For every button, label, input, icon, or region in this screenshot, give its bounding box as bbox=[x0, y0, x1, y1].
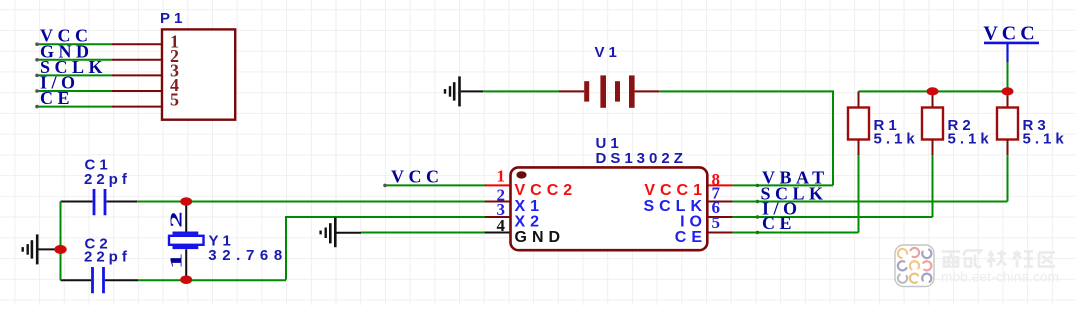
V1 short plate 2 bbox=[615, 81, 620, 101]
wire VCC to P1 pin1 bbox=[35, 42, 112, 46]
wire VCC bus bbox=[859, 90, 1008, 92]
svg-text:SCLK: SCLK bbox=[643, 198, 707, 215]
Y1 top plate bbox=[173, 232, 199, 235]
svg-text:VCC: VCC bbox=[983, 23, 1038, 45]
resistor R3 bbox=[997, 91, 1068, 155]
svg-text:22pf: 22pf bbox=[84, 249, 131, 266]
R2 body bbox=[922, 108, 943, 140]
U1 pin hotspot dots bbox=[756, 184, 759, 187]
wire ground to battery bbox=[483, 90, 559, 92]
ground (left) bbox=[23, 234, 61, 264]
svg-text:5: 5 bbox=[170, 89, 179, 109]
wire CE to P1 pin5 bbox=[35, 105, 112, 109]
U1 pin 2,3 stubs bbox=[485, 202, 510, 218]
connector P1 bbox=[112, 10, 235, 120]
svg-text:V1: V1 bbox=[595, 44, 621, 61]
ground (battery) bbox=[445, 76, 483, 106]
junction (VCC bus / R3) bbox=[1002, 87, 1014, 95]
wire ground to U1 GND bbox=[361, 232, 486, 234]
svg-text:CE: CE bbox=[762, 213, 796, 233]
wire U1 pin8 to VBAT vertical bbox=[733, 184, 833, 186]
svg-text:X1: X1 bbox=[515, 198, 545, 215]
P1 body bbox=[162, 29, 235, 119]
junction (VCC bus / R2) bbox=[927, 87, 939, 95]
wire VCC stem to bus bbox=[1007, 62, 1009, 91]
svg-text:GND: GND bbox=[515, 229, 566, 246]
P1 pin stubs 1-5 bbox=[112, 44, 162, 106]
wire R1 to CE bbox=[858, 155, 860, 232]
wire R3 to SCLK bbox=[1007, 155, 1009, 201]
svg-text:DS1302Z: DS1302Z bbox=[596, 150, 687, 167]
V1 short plate 1 bbox=[584, 81, 589, 101]
Y1 pin leads bbox=[185, 202, 187, 280]
U1 body bbox=[511, 167, 708, 250]
svg-text:X2: X2 bbox=[515, 214, 545, 231]
IC U1 DS1302Z bbox=[485, 135, 759, 250]
C2 lead wires bbox=[61, 279, 139, 281]
R2 bottom lead bbox=[932, 140, 934, 156]
svg-text:IO: IO bbox=[680, 214, 707, 231]
C1 plates bbox=[94, 189, 105, 215]
svg-text:mbb.eet-china.com: mbb.eet-china.com bbox=[941, 270, 1059, 285]
VCC port stem bbox=[1006, 43, 1008, 62]
V1 long plate 2 bbox=[629, 75, 635, 107]
svg-text:5.1k: 5.1k bbox=[874, 131, 919, 148]
svg-text:2: 2 bbox=[167, 211, 186, 228]
svg-text:CE: CE bbox=[675, 229, 707, 246]
svg-text:4: 4 bbox=[497, 216, 506, 235]
junction (ground / C1-C2) bbox=[54, 245, 66, 254]
svg-text:VCC1: VCC1 bbox=[644, 182, 707, 199]
resistor R2 bbox=[922, 91, 993, 155]
watermark logo bbox=[895, 245, 934, 287]
wire U1 pin6 I/O to R2 bbox=[733, 216, 933, 218]
R1 body bbox=[848, 108, 869, 140]
wire C1 to Y1 top / U1 X1 bbox=[137, 201, 486, 203]
junction Y1 top bbox=[180, 197, 192, 206]
V1 long plate 1 bbox=[600, 75, 606, 107]
svg-text:P1: P1 bbox=[160, 10, 186, 27]
svg-text:1: 1 bbox=[167, 253, 186, 270]
Y1 bottom plate bbox=[173, 246, 199, 249]
svg-text:5: 5 bbox=[712, 213, 721, 232]
wire VCC to U1 pin1 bbox=[383, 184, 486, 188]
battery V1 bbox=[559, 44, 659, 108]
ground (middle, U1 GND) bbox=[321, 218, 361, 248]
wire battery to VBAT bbox=[659, 91, 833, 185]
resistor R1 bbox=[848, 91, 919, 155]
VCC port bar bbox=[984, 42, 1039, 45]
R1 top lead bbox=[858, 91, 860, 107]
U1 pin1 marker dot bbox=[516, 171, 526, 178]
wire R2 to I/O bbox=[932, 155, 934, 217]
U1 pin 1 stub bbox=[485, 184, 510, 186]
svg-text:5.1k: 5.1k bbox=[948, 131, 993, 148]
V1 lead wires bbox=[559, 90, 659, 92]
wire U1 pin7 SCLK to R3 bbox=[733, 201, 1008, 203]
wire Y1 bottom to U1 X2 bbox=[286, 217, 486, 280]
wire U1 pin5 CE to R1 bbox=[733, 232, 859, 234]
U1 pin 8 stub bbox=[707, 184, 732, 186]
capacitor C1 bbox=[61, 157, 138, 216]
R3 bottom lead bbox=[1007, 140, 1009, 156]
svg-text:22pf: 22pf bbox=[84, 171, 131, 188]
R3 top lead bbox=[1007, 91, 1009, 107]
svg-text:32.768: 32.768 bbox=[208, 247, 287, 264]
Y1 crystal body bbox=[169, 236, 204, 245]
watermark text bbox=[942, 251, 1055, 268]
svg-text:CE: CE bbox=[40, 88, 74, 108]
svg-text:VCC: VCC bbox=[391, 167, 444, 187]
svg-text:VCC2: VCC2 bbox=[515, 182, 578, 199]
R2 top lead bbox=[932, 91, 934, 107]
wire C2 to Y1 bottom bbox=[138, 279, 286, 281]
crystal Y1 bbox=[167, 202, 288, 280]
wire SCLK to P1 pin3 bbox=[35, 74, 112, 78]
power port VCC bbox=[983, 23, 1039, 92]
capacitor C2 bbox=[61, 235, 139, 293]
wire GND to P1 pin2 bbox=[35, 58, 112, 62]
U1 pin 4 stub bbox=[485, 232, 510, 234]
C1 lead wires bbox=[61, 201, 138, 203]
U1 pin 7,6,5 stubs bbox=[707, 202, 732, 233]
svg-text:5.1k: 5.1k bbox=[1023, 131, 1068, 148]
C2 plates bbox=[93, 267, 104, 293]
svg-text:1: 1 bbox=[497, 167, 506, 186]
R1 bottom lead bbox=[858, 140, 860, 156]
R3 body bbox=[997, 108, 1018, 140]
wire C1/C2 left vertical bbox=[60, 202, 62, 281]
junction Y1 bottom bbox=[180, 275, 192, 284]
wire I/O to P1 pin4 bbox=[35, 89, 112, 93]
